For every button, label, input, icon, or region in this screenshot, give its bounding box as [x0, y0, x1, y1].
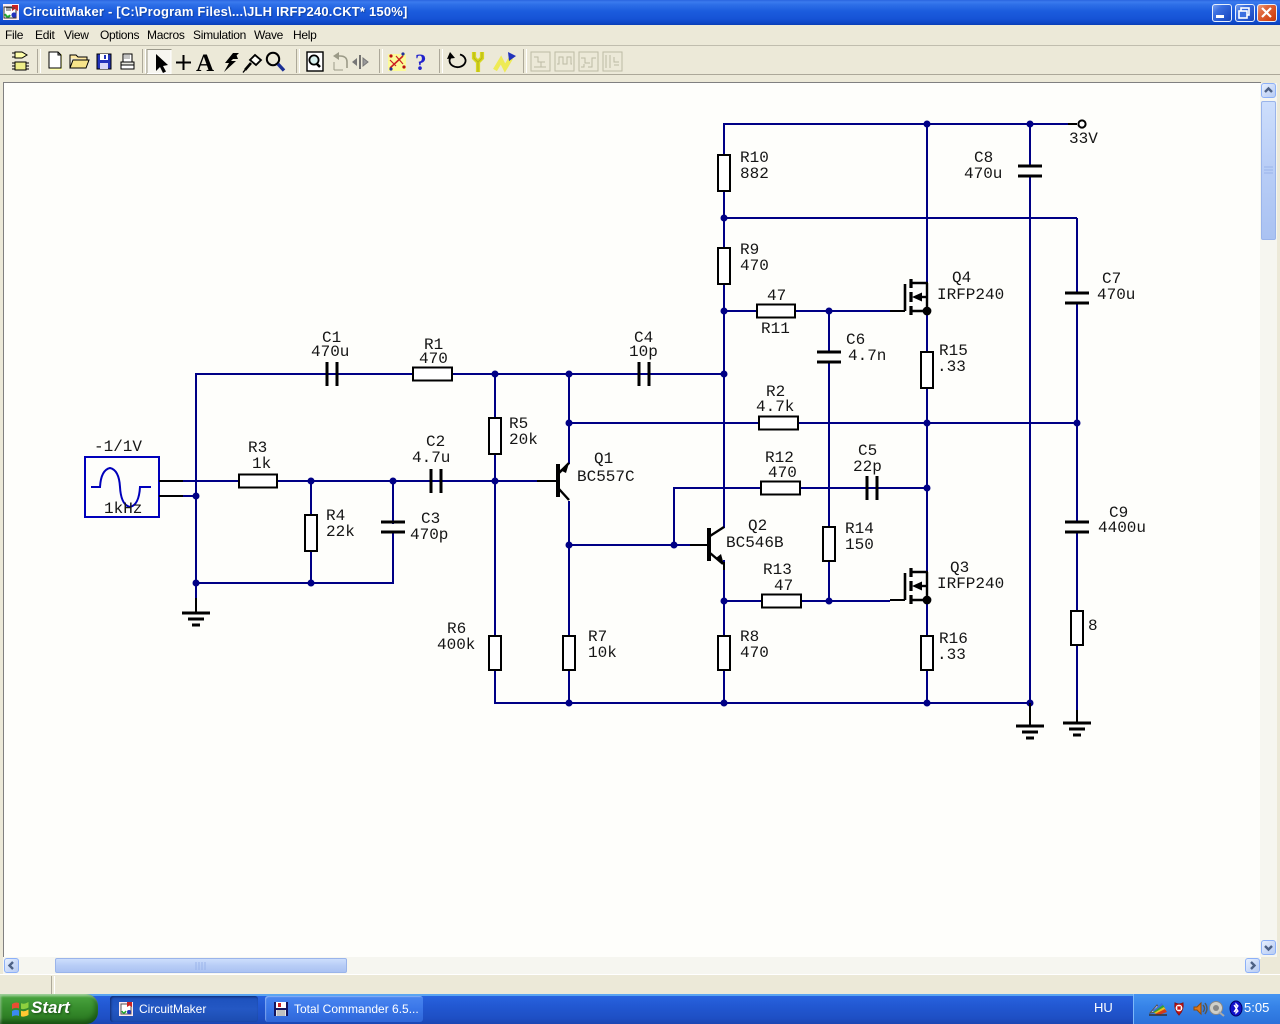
resistor R14 body: [823, 527, 835, 561]
node Q2 emitter/R13 junction: [721, 598, 728, 605]
wire R4 branch x311: [310, 481, 312, 583]
resistor R10 body: [718, 155, 730, 191]
label R3 1k: [248, 439, 271, 473]
toolbar: [0, 45, 1280, 75]
ground (C8): [1016, 703, 1044, 738]
svg-text:4.7n: 4.7n: [848, 347, 886, 365]
svg-text:47: 47: [767, 287, 786, 305]
label C4 10p: [629, 329, 658, 361]
svg-text:Q2: Q2: [748, 517, 767, 535]
transistor Q1: [537, 463, 569, 500]
wire top supply rail y124: [724, 123, 1070, 125]
svg-text:1kHz: 1kHz: [104, 500, 142, 518]
capacitor C3: [381, 522, 405, 532]
label R4 22k: [326, 507, 355, 541]
transistor Q4 (MOSFET): [890, 279, 931, 315]
transistor Q2: [690, 527, 724, 570]
node C2/R5/Q1 base junction: [492, 478, 499, 485]
wire R5/R6 vertical x495: [494, 373, 496, 704]
label 33V: [1069, 130, 1098, 148]
node R16 ground junction: [924, 700, 931, 707]
node R11/C6 junction: [826, 308, 833, 315]
wire R13 gate line y601: [724, 600, 890, 602]
svg-text:150: 150: [845, 536, 874, 554]
node R3/R4 junction: [308, 478, 315, 485]
node R8 ground junction: [721, 700, 728, 707]
svg-text:470u: 470u: [1097, 286, 1135, 304]
label Q4 IRFP240: [937, 269, 1004, 304]
wire left vertical x196: [195, 373, 197, 604]
label C2 4.7u: [412, 433, 450, 467]
resistor R6 body: [489, 636, 501, 670]
resistor R13 body: [762, 595, 801, 608]
wire bottom ground rail y703: [495, 702, 1030, 704]
resistor R11 body: [757, 305, 795, 318]
wire C3 branch x393: [392, 481, 394, 584]
horizontal scrollbar: [3, 957, 1260, 974]
capacitor C7: [1065, 293, 1089, 303]
svg-text:10k: 10k: [588, 644, 617, 662]
rainbow app icon: [1150, 1005, 1161, 1013]
label R7 10k: [588, 628, 617, 662]
label C7 470u: [1097, 270, 1135, 304]
resistor R2 body: [759, 417, 798, 430]
label C9 4400u: [1098, 504, 1146, 537]
svg-text:22k: 22k: [326, 523, 355, 541]
label R9 470: [740, 241, 769, 275]
wire input line y481: [183, 480, 537, 482]
terminal 33V: [1068, 120, 1086, 127]
label R10 882: [740, 149, 769, 183]
label R2 4.7k: [756, 383, 794, 416]
svg-text:IRFP240: IRFP240: [937, 575, 1004, 593]
source V1 sine generator: [85, 457, 183, 517]
svg-text:882: 882: [740, 165, 769, 183]
svg-text:IRFP240: IRFP240: [937, 286, 1004, 304]
label C8 470u: [964, 149, 1002, 183]
label C5 22p: [853, 442, 882, 476]
node C4/main junction: [721, 371, 728, 378]
status bar: [0, 974, 1280, 995]
node ground return junction: [193, 580, 200, 587]
label Q1 BC557C: [577, 450, 635, 486]
svg-text:470u: 470u: [964, 165, 1002, 183]
wire main vertical x724: [723, 123, 725, 704]
transistor Q3 (MOSFET): [890, 568, 931, 604]
node output/C7/C9 junction: [1074, 420, 1081, 427]
capacitor C2: [431, 469, 441, 493]
node R10/R9 bootstrap junction: [721, 215, 728, 222]
svg-text:400k: 400k: [437, 636, 475, 654]
svg-text:470u: 470u: [311, 343, 349, 361]
grey speaker: [1210, 1002, 1223, 1015]
label R5 20k: [509, 415, 538, 449]
node supply/Q4 drain junction: [924, 121, 931, 128]
node R12/Q2 base junction: [671, 542, 678, 549]
svg-text:1k: 1k: [252, 455, 271, 473]
svg-text:-1/1V: -1/1V: [94, 438, 142, 456]
capacitor C5: [867, 476, 877, 500]
svg-text:Q4: Q4: [952, 269, 971, 287]
node R7 ground junction: [566, 700, 573, 707]
svg-text:20k: 20k: [509, 431, 538, 449]
wire Q1 vertical x569: [568, 373, 570, 704]
capacitor C4: [639, 362, 649, 386]
capacitor C1: [327, 362, 337, 386]
resistor R7 body: [563, 636, 575, 670]
label R13 47: [763, 561, 793, 595]
red shield: [1175, 1003, 1183, 1015]
wire Q2 base line y545: [569, 544, 697, 546]
resistor R3 body: [239, 475, 277, 488]
taskbar: [0, 994, 1280, 1024]
label -1/1V: [94, 438, 142, 456]
svg-text:47: 47: [774, 577, 793, 595]
wire R12/C5 line y488: [674, 487, 927, 489]
wire R2 output line y423: [569, 422, 1077, 424]
svg-text:33V: 33V: [1069, 130, 1098, 148]
resistor R1 body: [413, 368, 452, 381]
label R14 150: [845, 520, 874, 554]
node Q1 emitter/R2 junction: [566, 420, 573, 427]
svg-text:470p: 470p: [410, 526, 448, 544]
label C6 4.7n: [846, 331, 886, 365]
svg-text:470: 470: [768, 464, 797, 482]
node supply/C8 junction: [1027, 121, 1034, 128]
ground (load): [1063, 710, 1091, 735]
node R15/output junction: [924, 420, 931, 427]
wire bottom return y583: [196, 582, 393, 584]
label R16 .33: [937, 630, 968, 664]
svg-text:8: 8: [1088, 617, 1098, 635]
resistor R4 body: [305, 515, 317, 551]
resistor R8 body: [718, 636, 730, 670]
svg-text:4.7k: 4.7k: [756, 398, 794, 416]
label R12 470: [765, 449, 797, 482]
window title bar: [0, 0, 1280, 25]
label 8: [1088, 617, 1098, 635]
label C1 470u: [311, 329, 349, 361]
node C5/output junction: [924, 485, 931, 492]
label R11 47: [761, 287, 790, 338]
wire bootstrap line y218: [724, 217, 1077, 219]
wire C6/R14 branch x829: [828, 311, 830, 601]
svg-text:4.7u: 4.7u: [412, 449, 450, 467]
wire source return lead y496: [183, 495, 196, 497]
node C1/R1/R5 junction: [492, 371, 499, 378]
node C8 ground junction: [1027, 700, 1034, 707]
svg-text:.33: .33: [937, 646, 966, 664]
resistor load 8 ohm body: [1071, 611, 1083, 645]
capacitor C6: [817, 352, 841, 362]
wire output vertical x927: [926, 124, 928, 704]
resistor R15 body: [921, 352, 933, 388]
node R9/R11 junction: [721, 308, 728, 315]
resistor R12 body: [761, 482, 800, 495]
node R4 bottom junction: [308, 580, 315, 587]
node C3 top junction: [390, 478, 397, 485]
svg-text:Q1: Q1: [594, 450, 613, 468]
wire R12 drop x674: [673, 487, 675, 545]
label R15 .33: [937, 342, 968, 376]
svg-text:BC546B: BC546B: [726, 534, 784, 552]
svg-text:10p: 10p: [629, 343, 658, 361]
label 1kHz: [104, 500, 142, 518]
svg-text:.33: .33: [937, 358, 966, 376]
label C3 470p: [410, 510, 448, 544]
svg-text:22p: 22p: [853, 458, 882, 476]
label R6 400k: [437, 620, 475, 654]
speaker orange: [1194, 1003, 1201, 1014]
label Q2 BC546B: [726, 517, 784, 552]
node R14/R13 junction: [826, 598, 833, 605]
bluetooth: [1230, 1001, 1242, 1016]
wire R11 gate line y311: [724, 310, 890, 312]
label R1 470: [419, 336, 448, 368]
svg-text:470: 470: [740, 644, 769, 662]
resistor R5 body: [489, 418, 501, 454]
wire C7/C9 vertical x1077: [1076, 218, 1078, 715]
ground (input): [182, 598, 210, 625]
label R8 470: [740, 628, 769, 662]
node source return junction: [193, 493, 200, 500]
vertical scrollbar: [1260, 83, 1277, 957]
wire C8 vertical x1030: [1029, 124, 1031, 703]
svg-text:R11: R11: [761, 320, 790, 338]
svg-text:4400u: 4400u: [1098, 519, 1146, 537]
svg-text:BC557C: BC557C: [577, 468, 635, 486]
menu bar: [0, 25, 1280, 45]
node R1/C4 junction: [566, 371, 573, 378]
svg-text:470: 470: [740, 257, 769, 275]
label Q3 IRFP240: [937, 559, 1004, 593]
capacitor C9: [1065, 522, 1089, 532]
resistor R9 body: [718, 248, 730, 284]
capacitor C8: [1018, 166, 1042, 176]
wire top input rail y374: [196, 373, 724, 375]
resistor R16 body: [921, 636, 933, 670]
svg-text:470: 470: [419, 350, 448, 368]
node Q1 collector/Q2 base junction: [566, 542, 573, 549]
